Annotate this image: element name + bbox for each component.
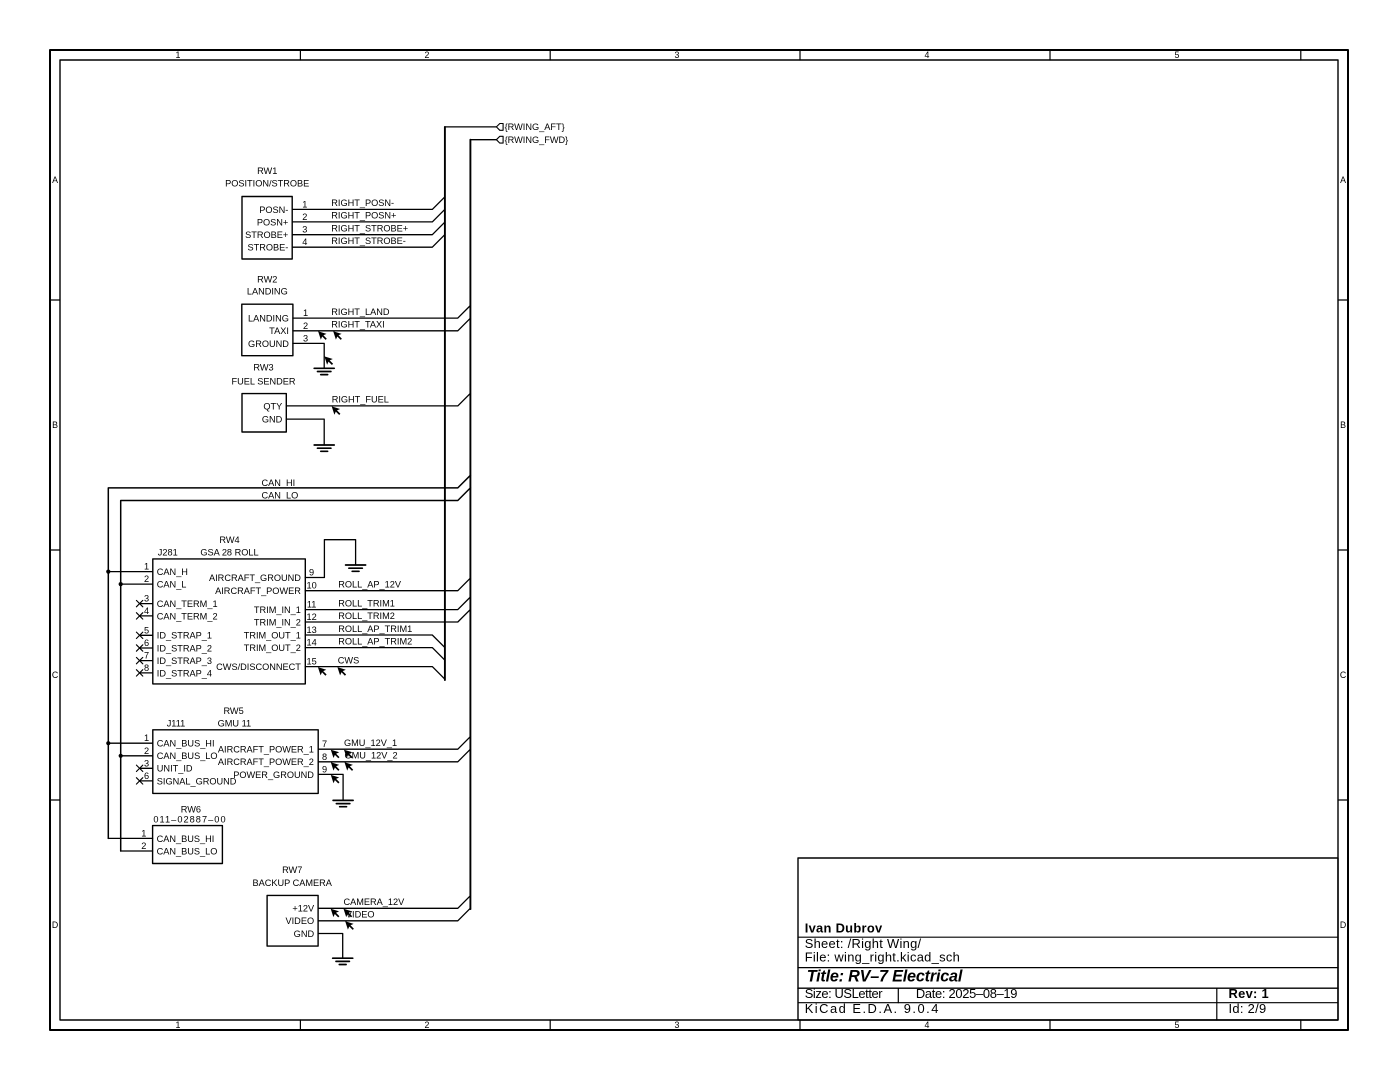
svg-text:RIGHT_STROBE-: RIGHT_STROBE- <box>331 236 406 246</box>
svg-text:9: 9 <box>309 568 314 578</box>
svg-text:ROLL_TRIM2: ROLL_TRIM2 <box>338 611 395 621</box>
frame column ticks bottom <box>300 1020 1300 1030</box>
wire ROLL_AP_TRIM2 (RW4) <box>305 636 445 660</box>
svg-text:CWS/DISCONNECT: CWS/DISCONNECT <box>216 662 301 672</box>
svg-text:D: D <box>52 920 58 930</box>
svg-text:ROLL_AP_TRIM1: ROLL_AP_TRIM1 <box>338 624 412 634</box>
ERC marker arrow on RW2 ground <box>324 356 333 365</box>
wire RIGHT_POSN+ (RW1 pin 2) <box>292 209 445 222</box>
svg-text:TRIM_IN_2: TRIM_IN_2 <box>254 617 301 627</box>
svg-text:KiCad E.D.A. 9.0.4: KiCad E.D.A. 9.0.4 <box>805 1001 940 1016</box>
svg-text:1: 1 <box>302 199 307 209</box>
svg-text:3: 3 <box>675 1020 680 1030</box>
frame column numbers top <box>176 50 1180 60</box>
svg-text:{RWING_FWD}: {RWING_FWD} <box>505 135 569 145</box>
frame row ticks left <box>50 300 60 800</box>
svg-text:AIRCRAFT_POWER_2: AIRCRAFT_POWER_2 <box>218 757 314 767</box>
wire RIGHT_TAXI (RW2 pin 2) <box>293 318 471 331</box>
svg-text:CAN_TERM_1: CAN_TERM_1 <box>157 599 218 609</box>
ERC marker arrows on GMU_12V_2 <box>331 762 353 771</box>
connector RW3 FUEL SENDER <box>232 363 296 432</box>
wire RIGHT_LAND (RW2 pin 1) <box>293 306 471 319</box>
svg-text:Id: 2/9: Id: 2/9 <box>1229 1001 1267 1016</box>
svg-text:J281: J281 <box>158 547 178 557</box>
wire RIGHT_FUEL (RW3 QTY) <box>286 393 470 406</box>
wire RW7 GND to ground <box>318 934 343 959</box>
svg-text:2: 2 <box>425 50 430 60</box>
title block frame <box>798 858 1338 1020</box>
junction CAN_HI / RW4.1 <box>106 570 110 574</box>
svg-text:2: 2 <box>303 321 308 331</box>
junction CAN_HI / RW5.1 <box>106 741 110 745</box>
wire bundle RWING_AFT vertical <box>444 127 446 680</box>
svg-text:LANDING: LANDING <box>247 286 288 296</box>
frame column ticks top <box>300 50 1300 60</box>
svg-text:GMU_12V_2: GMU_12V_2 <box>345 751 398 761</box>
wire RW2 pin 3 to ground <box>293 343 324 368</box>
svg-text:RIGHT_POSN+: RIGHT_POSN+ <box>331 211 396 221</box>
svg-text:8: 8 <box>144 663 149 673</box>
svg-text:GMU_12V_1: GMU_12V_1 <box>344 738 397 748</box>
wire to hierarchical label RWING_FWD <box>470 139 496 141</box>
ERC marker arrows on RIGHT_TAXI <box>318 331 342 340</box>
svg-text:7: 7 <box>144 651 149 661</box>
svg-text:ID_STRAP_1: ID_STRAP_1 <box>157 631 212 641</box>
ground symbol (RW7) <box>333 958 353 964</box>
svg-text:POSN+: POSN+ <box>257 217 288 227</box>
ground symbol (RW3) <box>314 445 334 451</box>
wire RIGHT_STROBE+ (RW1 pin 3) <box>292 222 445 235</box>
svg-text:CAN_LO: CAN_LO <box>262 490 299 500</box>
svg-text:RIGHT_LAND: RIGHT_LAND <box>331 307 390 317</box>
ERC marker arrows on CWS <box>318 667 346 676</box>
connector RW6 011-02887-00 <box>141 805 226 864</box>
ERC marker arrow on POWER_GROUND <box>331 775 340 784</box>
svg-text:3: 3 <box>302 225 307 235</box>
svg-text:TRIM_IN_1: TRIM_IN_1 <box>254 605 301 615</box>
no-connect RW5 pin 6 SIGNAL_GROUND <box>136 778 152 784</box>
wire CAN_HI to RW6 pin 1 <box>108 837 152 839</box>
wire RIGHT_POSN- (RW1 pin 1) <box>292 197 445 210</box>
connector RW5 GMU 11 (J111) <box>144 706 327 793</box>
wire CAN_LO to RW6 pin 2 <box>121 850 153 852</box>
no-connect RW4 pin 4 CAN_TERM_2 <box>136 613 152 619</box>
no-connect RW4 pin 7 ID_STRAP_3 <box>136 657 152 663</box>
svg-text:POSN-: POSN- <box>259 205 288 215</box>
wire RW4 pin 2 CAN_L to CAN_LO <box>121 583 153 585</box>
wire ROLL_AP_12V (RW4) <box>305 578 470 591</box>
svg-text:Title: RV–7 Electrical: Title: RV–7 Electrical <box>807 968 963 986</box>
wire CWS (RW4 pin 15) <box>305 655 445 679</box>
svg-text:J111: J111 <box>167 719 186 729</box>
junction CAN_LO / RW5.2 <box>119 754 123 758</box>
svg-text:ID_STRAP_4: ID_STRAP_4 <box>157 668 212 678</box>
svg-text:A: A <box>1340 175 1346 185</box>
svg-text:15: 15 <box>306 657 316 667</box>
ERC marker arrows on GMU_12V_1 <box>331 750 353 759</box>
svg-text:GND: GND <box>294 929 315 939</box>
connector RW1 POSITION/STROBE <box>225 166 309 259</box>
wire RW5 pin 1 to CAN_HI <box>108 742 153 744</box>
wire RW5 pin 2 to CAN_LO <box>121 755 153 757</box>
wire VIDEO (RW7) <box>318 908 470 921</box>
svg-text:ID_STRAP_2: ID_STRAP_2 <box>157 643 212 653</box>
svg-text:4: 4 <box>925 1020 930 1030</box>
svg-text:2: 2 <box>144 746 149 756</box>
svg-text:RIGHT_TAXI: RIGHT_TAXI <box>331 320 384 330</box>
svg-text:14: 14 <box>306 638 316 648</box>
ground symbol (RW4 pin 9) <box>346 565 366 571</box>
svg-text:CAN_HI: CAN_HI <box>262 478 296 488</box>
wire CAN_LO <box>121 488 471 851</box>
svg-text:GROUND: GROUND <box>248 339 289 349</box>
svg-text:C: C <box>1340 670 1347 680</box>
svg-text:6: 6 <box>144 771 149 781</box>
wire CAMERA_12V (RW7 +12V) <box>318 896 470 909</box>
wire bundle RWING_FWD vertical <box>469 140 471 909</box>
svg-text:GMU 11: GMU 11 <box>218 719 252 729</box>
ERC marker arrow on RIGHT_FUEL <box>332 406 341 415</box>
connector RW7 BACKUP CAMERA <box>252 865 332 946</box>
svg-text:Ivan Dubrov: Ivan Dubrov <box>805 921 883 936</box>
junction CAN_LO / RW4.2 <box>119 582 123 586</box>
svg-text:2: 2 <box>425 1020 430 1030</box>
no-connect RW4 pin 3 CAN_TERM_1 <box>136 600 152 606</box>
svg-text:3: 3 <box>675 50 680 60</box>
wire RW4 pin 9 AIRCRAFT_GROUND to ground <box>305 540 355 578</box>
ground symbol (RW5 pin 9) <box>333 800 353 806</box>
svg-text:RW2: RW2 <box>257 275 277 285</box>
svg-text:1: 1 <box>176 1020 181 1030</box>
svg-text:TAXI: TAXI <box>269 326 289 336</box>
wire CAN_HI <box>108 475 470 838</box>
svg-text:9: 9 <box>322 764 327 774</box>
svg-text:CAN_BUS_HI: CAN_BUS_HI <box>157 834 215 844</box>
svg-text:CAN_TERM_2: CAN_TERM_2 <box>157 611 218 621</box>
svg-text:ROLL_AP_12V: ROLL_AP_12V <box>338 580 402 590</box>
svg-text:5: 5 <box>144 625 149 635</box>
svg-text:A: A <box>52 175 58 185</box>
svg-text:11: 11 <box>307 600 317 610</box>
frame row letters left <box>52 175 59 930</box>
svg-text:2: 2 <box>302 212 307 222</box>
svg-text:LANDING: LANDING <box>248 314 289 324</box>
svg-text:CAMERA_12V: CAMERA_12V <box>344 897 406 907</box>
svg-text:Rev: 1: Rev: 1 <box>1229 986 1270 1001</box>
svg-text:Date: 2025–08–19: Date: 2025–08–19 <box>916 986 1017 1001</box>
svg-text:AIRCRAFT_POWER: AIRCRAFT_POWER <box>215 586 301 596</box>
svg-text:RW1: RW1 <box>257 166 277 176</box>
svg-text:UNIT_ID: UNIT_ID <box>157 764 193 774</box>
frame column numbers bottom <box>176 1020 1180 1030</box>
ERC marker arrow on VIDEO <box>345 921 354 930</box>
svg-text:ROLL_AP_TRIM2: ROLL_AP_TRIM2 <box>338 636 412 646</box>
frame row ticks right <box>1338 300 1348 800</box>
no-connect RW4 pin 8 ID_STRAP_4 <box>136 670 152 676</box>
wire ROLL_TRIM2 (RW4) <box>305 609 470 622</box>
svg-text:B: B <box>52 420 58 430</box>
svg-text:ID_STRAP_3: ID_STRAP_3 <box>157 656 212 666</box>
no-connect RW4 pin 5 ID_STRAP_1 <box>136 632 152 638</box>
svg-text:RIGHT_POSN-: RIGHT_POSN- <box>331 198 394 208</box>
svg-text:2: 2 <box>144 574 149 584</box>
svg-text:4: 4 <box>925 50 930 60</box>
svg-text:VIDEO: VIDEO <box>346 910 375 920</box>
svg-text:1: 1 <box>303 308 308 318</box>
svg-text:CAN_H: CAN_H <box>157 567 188 577</box>
svg-text:FUEL SENDER: FUEL SENDER <box>232 377 296 387</box>
svg-text:RW5: RW5 <box>223 706 243 716</box>
svg-text:011–02887–00: 011–02887–00 <box>153 815 226 825</box>
no-connect RW5 pin 3 UNIT_ID <box>136 765 152 771</box>
wire GMU_12V_2 (RW5 pin 8) <box>318 749 470 762</box>
hierarchical label RWING_FWD <box>496 135 568 145</box>
svg-text:CAN_BUS_LO: CAN_BUS_LO <box>157 751 218 761</box>
wire GMU_12V_1 (RW5 pin 7) <box>318 737 470 750</box>
svg-text:3: 3 <box>144 594 149 604</box>
svg-text:RIGHT_FUEL: RIGHT_FUEL <box>332 395 389 405</box>
svg-text:RW3: RW3 <box>253 363 273 373</box>
svg-text:GND: GND <box>262 415 283 425</box>
svg-text:8: 8 <box>322 752 327 762</box>
no-connect RW4 pin 6 ID_STRAP_2 <box>136 645 152 651</box>
svg-text:CAN_L: CAN_L <box>157 580 187 590</box>
svg-text:{RWING_AFT}: {RWING_AFT} <box>505 122 565 132</box>
svg-text:5: 5 <box>1175 50 1180 60</box>
svg-text:1: 1 <box>176 50 181 60</box>
wire RW4 pin 1 CAN_H to CAN_HI <box>108 571 153 573</box>
svg-text:B: B <box>1340 420 1346 430</box>
wire ROLL_AP_TRIM1 (RW4) <box>305 624 445 648</box>
svg-text:12: 12 <box>306 612 316 622</box>
svg-text:ROLL_TRIM1: ROLL_TRIM1 <box>338 598 395 608</box>
svg-text:10: 10 <box>306 581 316 591</box>
svg-text:3: 3 <box>144 758 149 768</box>
svg-text:BACKUP CAMERA: BACKUP CAMERA <box>252 878 332 888</box>
svg-text:VIDEO: VIDEO <box>286 916 315 926</box>
svg-text:TRIM_OUT_2: TRIM_OUT_2 <box>244 643 301 653</box>
svg-text:+12V: +12V <box>292 904 315 914</box>
svg-text:C: C <box>52 670 59 680</box>
svg-text:RW4: RW4 <box>219 535 239 545</box>
svg-text:2: 2 <box>141 841 146 851</box>
svg-text:1: 1 <box>144 733 149 743</box>
wire RIGHT_STROBE- (RW1 pin 4) <box>292 235 445 248</box>
svg-text:POSITION/STROBE: POSITION/STROBE <box>225 178 309 188</box>
svg-text:CAN_BUS_HI: CAN_BUS_HI <box>157 739 215 749</box>
svg-text:QTY: QTY <box>263 401 282 411</box>
svg-text:TRIM_OUT_1: TRIM_OUT_1 <box>244 630 301 640</box>
svg-text:STROBE-: STROBE- <box>247 243 288 253</box>
svg-text:13: 13 <box>306 625 316 635</box>
svg-text:Size: USLetter: Size: USLetter <box>805 986 884 1001</box>
svg-text:STROBE+: STROBE+ <box>245 230 288 240</box>
wire ROLL_TRIM1 (RW4) <box>305 597 470 610</box>
svg-text:File: wing_right.kicad_sch: File: wing_right.kicad_sch <box>805 950 960 965</box>
svg-text:1: 1 <box>141 828 146 838</box>
wire to hierarchical label RWING_AFT <box>445 126 496 128</box>
svg-text:7: 7 <box>322 739 327 749</box>
svg-text:3: 3 <box>303 333 308 343</box>
svg-text:1: 1 <box>144 562 149 572</box>
svg-text:RW7: RW7 <box>282 865 302 875</box>
svg-text:4: 4 <box>302 237 307 247</box>
ground symbol (RW2) <box>314 368 334 374</box>
wire RW5 pin 9 POWER_GROUND to ground <box>318 774 343 800</box>
svg-text:CAN_BUS_LO: CAN_BUS_LO <box>157 846 218 856</box>
connector RW4 GSA 28 ROLL (J281) <box>144 535 317 684</box>
wire RW3 GND to ground <box>286 419 324 445</box>
svg-text:AIRCRAFT_GROUND: AIRCRAFT_GROUND <box>209 573 301 583</box>
svg-text:RIGHT_STROBE+: RIGHT_STROBE+ <box>331 224 408 234</box>
svg-text:CWS: CWS <box>338 655 359 665</box>
svg-text:POWER_GROUND: POWER_GROUND <box>233 770 314 780</box>
svg-text:4: 4 <box>144 606 149 616</box>
svg-text:D: D <box>1340 920 1346 930</box>
svg-text:SIGNAL_GROUND: SIGNAL_GROUND <box>157 776 237 786</box>
frame row letters right <box>1340 175 1347 930</box>
connector RW2 LANDING <box>242 275 308 356</box>
svg-text:5: 5 <box>1175 1020 1180 1030</box>
svg-text:6: 6 <box>144 638 149 648</box>
svg-text:RW6: RW6 <box>181 805 201 815</box>
svg-text:GSA 28 ROLL: GSA 28 ROLL <box>200 547 258 557</box>
ERC marker arrows on CAMERA_12V <box>331 909 353 918</box>
svg-text:AIRCRAFT_POWER_1: AIRCRAFT_POWER_1 <box>218 745 314 755</box>
hierarchical label RWING_AFT <box>496 122 564 132</box>
